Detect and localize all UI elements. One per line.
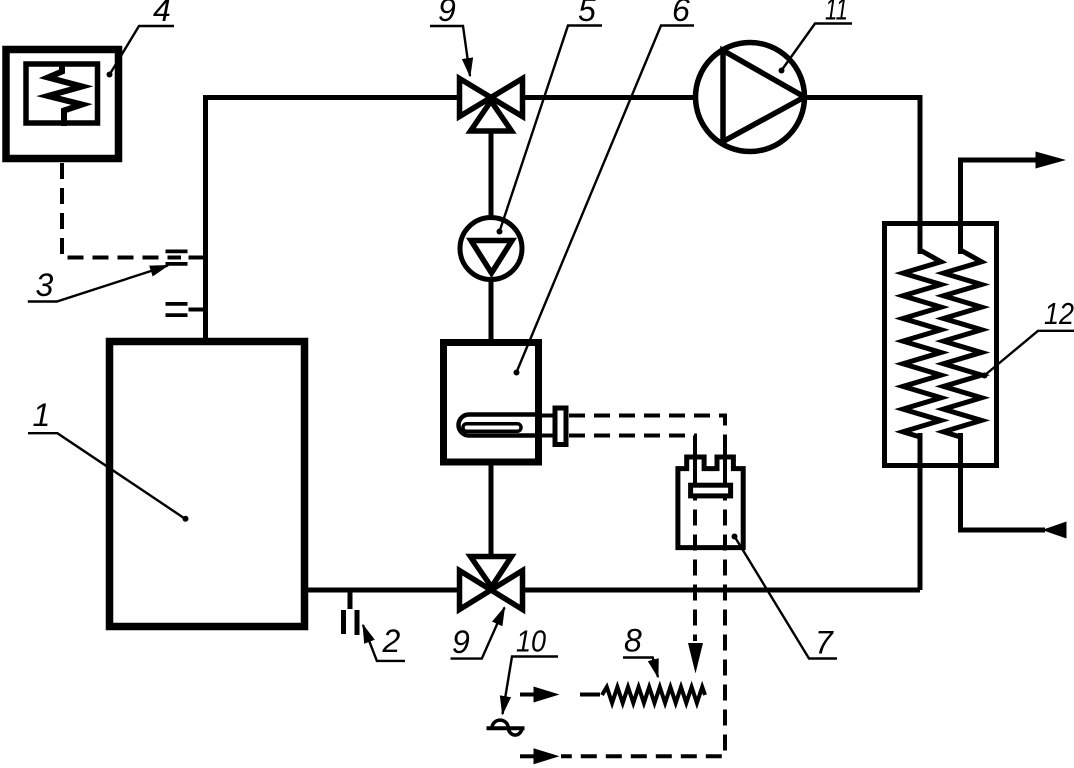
- heater fitting stubs: [541, 416, 553, 436]
- vibration symbol 10 line: [487, 726, 525, 730]
- svg-text:2: 2: [382, 623, 401, 659]
- thermostat 4 inner box: [26, 64, 98, 123]
- dash to wire at lower sensor junction: [189, 308, 204, 312]
- vibration symbol 10 sine: [492, 720, 522, 735]
- drain port 2 stub: [348, 592, 353, 609]
- heater element inner tube: [463, 424, 521, 431]
- bold down arrow to heater coil 8: [688, 643, 703, 674]
- wire compressor 11 to condenser 12: [805, 98, 921, 255]
- svg-text:4: 4: [153, 0, 171, 28]
- dashed power line lower: fitting to relay 7 down: [569, 436, 695, 642]
- valve 9 bottom bowtie: [460, 571, 523, 610]
- drain port 2 ticks: [344, 610, 358, 635]
- compressor 11 circle: [696, 43, 805, 152]
- condenser 12 left coil: [903, 250, 941, 437]
- dash to wire at sensor junction: [189, 256, 204, 260]
- wire top: corner to valve 9 and down left side: [206, 98, 460, 340]
- relay 7 body outline: [678, 457, 743, 548]
- vessel 6 box: [444, 343, 539, 463]
- heater coil 8 zigzag: [602, 687, 705, 703]
- relay 7 contact bar: [691, 485, 731, 496]
- condenser 12 shell: [885, 224, 997, 466]
- heater element outer sheath in vessel 6: [459, 415, 538, 436]
- svg-text:3: 3: [36, 267, 54, 303]
- wire valve 9 to pump 5: [489, 129, 494, 220]
- pump 5 circle: [460, 218, 522, 280]
- svg-text:8: 8: [624, 623, 642, 659]
- wire vessel 6 to valve 9 bottom: [489, 464, 494, 558]
- tank 1: [110, 342, 305, 627]
- sensor junction upper marks: [166, 251, 188, 264]
- wire valve 9 bottom to condenser 12: [523, 588, 921, 593]
- arrow water inlet: [1042, 522, 1067, 539]
- thermostat 4 spring element: [48, 62, 82, 126]
- thermostat 4 outer box: [6, 50, 119, 159]
- svg-text:1: 1: [33, 397, 51, 433]
- svg-text:12: 12: [1044, 296, 1074, 331]
- input arrow to heater coil 8 line: [520, 693, 534, 697]
- svg-text:9: 9: [438, 0, 456, 28]
- dash before heater coil 8: [580, 693, 600, 697]
- pump 5 inner triangle: [471, 241, 512, 274]
- condenser 12 right coil: [944, 250, 982, 437]
- wire condenser 12 water inlet bottom: [961, 433, 1046, 530]
- svg-text:10: 10: [516, 624, 546, 659]
- dashed control line 3 from thermostat 4: [62, 163, 181, 258]
- valve 9 bottom actuator triangle: [471, 557, 512, 588]
- compressor 11 triangle: [723, 51, 805, 142]
- heater fitting rectangle: [555, 408, 566, 445]
- dashed power line upper: fitting to relay 7 to bottom return: [561, 416, 725, 757]
- wire valve 9 to compressor 11: [523, 95, 697, 100]
- three-way valve 9 top bowtie: [460, 79, 523, 117]
- input arrow bottom return line: [520, 754, 534, 758]
- relay 7 tab conductor stubs: [695, 450, 725, 484]
- wire pump 5 to vessel 6: [489, 278, 494, 342]
- svg-text:5: 5: [578, 0, 596, 28]
- sensor junction lower marks: [166, 304, 188, 315]
- arrow water outlet: [1036, 152, 1067, 169]
- wire condenser 12 down to bottom wire: [918, 433, 923, 590]
- wire condenser 12 water outlet top: [961, 160, 1038, 254]
- svg-text:9: 9: [452, 624, 470, 660]
- valve 9 top actuator triangle: [471, 101, 512, 131]
- svg-text:6: 6: [672, 0, 690, 28]
- svg-text:7: 7: [815, 625, 834, 661]
- wire tank 1 to valve 9 bottom: [306, 588, 460, 593]
